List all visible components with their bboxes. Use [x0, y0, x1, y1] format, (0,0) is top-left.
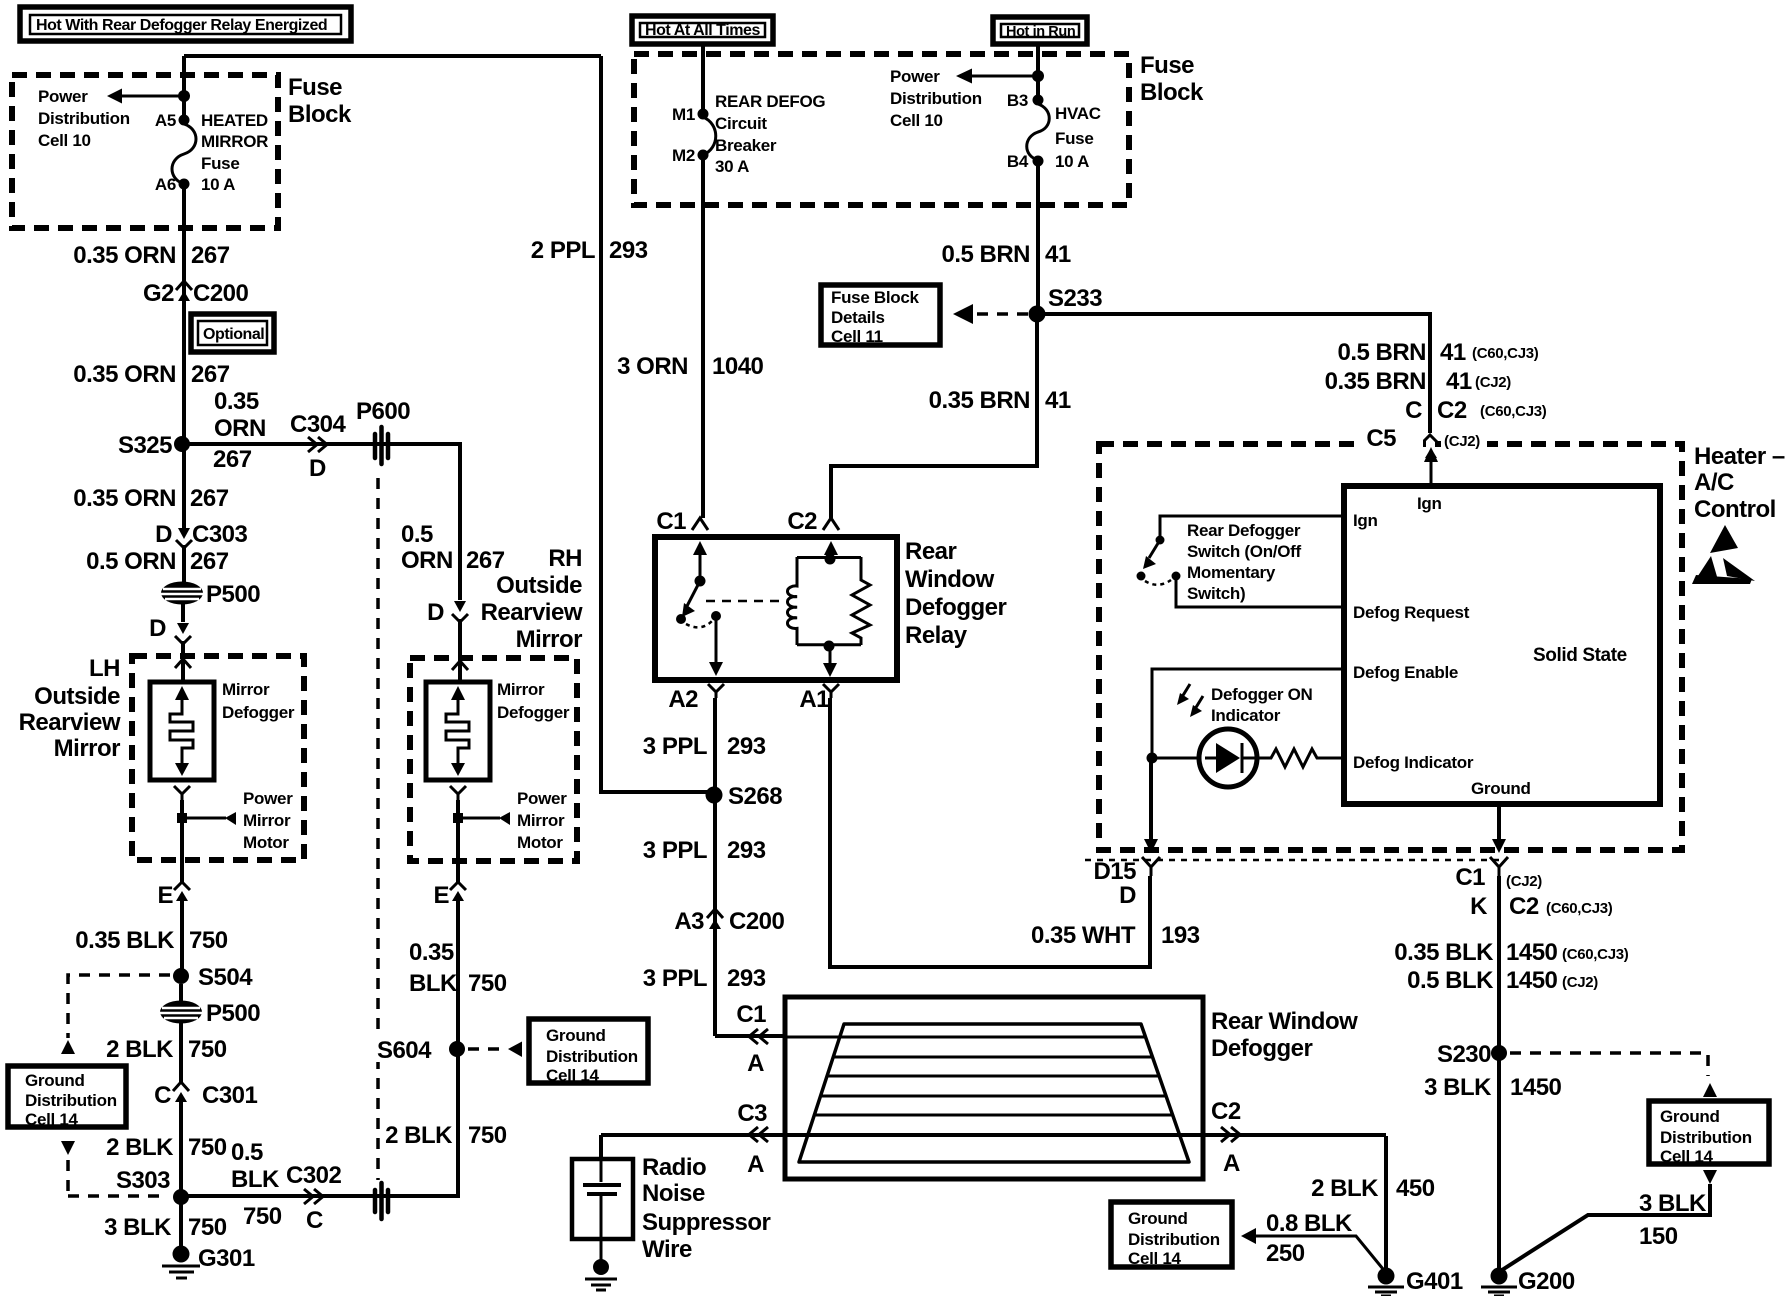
wire: arrow to Power Distribution Cell 10 (center) — [956, 69, 1044, 84]
svg-text:C303: C303 — [192, 521, 248, 548]
svg-text:0.35 BRN: 0.35 BRN — [1325, 368, 1426, 395]
svg-text:Power: Power — [517, 789, 567, 808]
svg-text:C301: C301 — [202, 1082, 258, 1109]
svg-text:RH: RH — [548, 545, 582, 572]
ground distribution cell 14 box (center bottom) — [1111, 1202, 1232, 1268]
wire: 0.35 ORN 267 from S325 to P600 and RH mirror — [182, 444, 460, 600]
ground G200 — [1481, 1268, 1575, 1296]
connector C200 pin A3 — [674, 908, 784, 935]
svg-text:10 A: 10 A — [1055, 152, 1089, 171]
connector C302 arrow pin C — [286, 1162, 342, 1234]
svg-text:A: A — [1223, 1150, 1240, 1177]
label 0.35 BLK 750 (RH stacked) — [409, 939, 507, 997]
svg-text:0.35 BRN: 0.35 BRN — [929, 387, 1030, 414]
svg-text:Rearview: Rearview — [19, 709, 121, 736]
svg-text:750: 750 — [189, 927, 228, 954]
svg-text:2 BLK: 2 BLK — [1311, 1175, 1379, 1202]
LED light rays — [1177, 684, 1203, 717]
relay switch contact to A2 — [711, 611, 721, 621]
svg-text:B3: B3 — [1007, 91, 1028, 110]
label Power Distribution Cell 10 (left) — [38, 87, 130, 150]
svg-text:E: E — [433, 882, 449, 909]
svg-text:0.35 ORN: 0.35 ORN — [73, 242, 176, 269]
svg-text:267: 267 — [190, 485, 229, 512]
svg-text:A/C: A/C — [1694, 469, 1734, 496]
svg-text:750: 750 — [188, 1036, 227, 1063]
connector A2 below relay — [668, 684, 724, 713]
svg-text:C: C — [154, 1082, 171, 1109]
svg-text:Distribution: Distribution — [890, 89, 982, 108]
svg-text:C2: C2 — [1437, 397, 1467, 424]
wire S504 to P500 — [179, 984, 183, 1002]
label 3 PPL 293 — [643, 965, 766, 992]
svg-text:Defog Enable: Defog Enable — [1353, 663, 1458, 682]
wire from C3 down to radio noise suppressor — [599, 1135, 603, 1160]
header box: Hot in Run — [993, 17, 1087, 44]
svg-text:B4: B4 — [1007, 152, 1029, 171]
defogger glass trapezoid — [799, 1024, 1189, 1162]
connector E (RH) — [433, 882, 466, 909]
wire 0.35 BLK 1450 from C1-K to S230 — [1497, 876, 1501, 1053]
wire 3 ORN 1040 from M2 to relay C1 — [701, 155, 705, 518]
fuse block (center) dashed box — [634, 54, 1129, 205]
wire 2 BLK 750 to C301 — [179, 1023, 183, 1083]
wire to defogger C1 — [715, 1034, 785, 1038]
svg-text:G301: G301 — [198, 1245, 255, 1272]
labels 0.35 ORN 267 (S325 branch) — [213, 388, 266, 473]
breaker element — [703, 117, 716, 155]
svg-text:750: 750 — [188, 1214, 227, 1241]
label Heater A/C Control — [1694, 443, 1785, 523]
wire 0.8 BLK 250 to G401 — [1241, 1228, 1383, 1269]
svg-text:450: 450 — [1396, 1175, 1435, 1202]
wire 0.35 BRN 41 from S233 to relay C2 — [831, 314, 1037, 518]
svg-text:HEATED: HEATED — [201, 111, 268, 130]
dotted throw arc — [686, 621, 712, 627]
svg-text:1450: 1450 — [1506, 967, 1558, 994]
svg-text:0.5 BLK: 0.5 BLK — [1407, 967, 1494, 994]
wire 0.35 BLK 750 to S604 — [456, 901, 460, 1049]
svg-text:267: 267 — [190, 548, 229, 575]
svg-text:Ign: Ign — [1417, 494, 1442, 513]
svg-text:BLK: BLK — [231, 1166, 280, 1193]
svg-text:(C60,CJ3): (C60,CJ3) — [1546, 900, 1613, 917]
suppressor capacitor — [583, 1159, 621, 1262]
connector C1 into relay — [656, 508, 708, 535]
connector C303 pin D — [176, 528, 192, 548]
wire 3 BLK 750 to G301 — [179, 1197, 183, 1248]
junction to power mirror motor — [177, 812, 236, 825]
label 0.5 BLK 750 — [231, 1139, 282, 1230]
svg-text:Block: Block — [1140, 79, 1204, 106]
svg-text:C200: C200 — [729, 908, 785, 935]
svg-text:3 BLK: 3 BLK — [1639, 1190, 1707, 1217]
svg-text:A1: A1 — [799, 686, 829, 713]
label HVAC Fuse 10 A — [1055, 104, 1101, 171]
fuse element A5-A6 — [172, 124, 196, 184]
label 3 BLK 1450 — [1424, 1074, 1561, 1101]
svg-text:Distribution: Distribution — [1660, 1128, 1752, 1147]
svg-text:Defogger: Defogger — [1211, 1035, 1313, 1062]
relay switch: arrow from C1 — [693, 541, 707, 581]
svg-text:(C60,CJ3): (C60,CJ3) — [1562, 946, 1629, 963]
svg-text:G2: G2 — [143, 280, 174, 307]
arrow down to A2 — [709, 616, 723, 676]
svg-text:(C60,CJ3): (C60,CJ3) — [1480, 403, 1547, 420]
LH outside rearview mirror dashed box — [132, 656, 304, 860]
label 0.5 BRN 41 — [941, 241, 1070, 268]
label 3 PPL 293 — [643, 837, 766, 864]
coil top rail — [797, 556, 861, 559]
connector C5 at heater box — [1422, 435, 1438, 487]
svg-text:750: 750 — [188, 1134, 227, 1161]
svg-text:G401: G401 — [1406, 1268, 1463, 1295]
svg-text:D: D — [1119, 882, 1136, 909]
svg-text:Breaker: Breaker — [715, 136, 777, 155]
svg-text:D: D — [309, 455, 326, 482]
svg-text:Ign: Ign — [1353, 511, 1378, 530]
svg-text:267: 267 — [466, 547, 505, 574]
coil bottom rail — [797, 643, 861, 646]
dashed wire S233 to fuse block details — [953, 304, 1028, 324]
svg-text:C1: C1 — [656, 508, 686, 535]
svg-text:Cell 14: Cell 14 — [1660, 1147, 1714, 1166]
LED junction — [1147, 753, 1158, 764]
svg-text:D: D — [149, 615, 166, 642]
wire: arrow to Power Distribution Cell 10 — [107, 89, 190, 104]
grommet at C302 boundary — [375, 1183, 388, 1219]
ground distribution cell 14 box (S604) — [529, 1019, 648, 1085]
svg-text:Distribution: Distribution — [546, 1047, 638, 1066]
svg-text:Mirror: Mirror — [497, 680, 545, 699]
header box: Hot At All Times — [632, 16, 773, 44]
wire from Hot At All Times into breaker — [701, 44, 705, 114]
wire 2 BLK 450 from defogger C2 to G401 — [1384, 1136, 1388, 1270]
svg-text:41: 41 — [1440, 339, 1466, 366]
label Mirror Defogger (LH) — [222, 680, 295, 722]
svg-text:Distribution: Distribution — [1128, 1230, 1220, 1249]
svg-text:0.35: 0.35 — [409, 939, 454, 966]
svg-text:S303: S303 — [116, 1167, 170, 1194]
wire 0.5 BRN 41 from B4 to S233 — [1036, 161, 1040, 314]
connector below RH element — [450, 786, 466, 800]
splice S504 — [173, 964, 253, 991]
label 0.5 ORN 267 (RH) — [401, 521, 505, 574]
labels D C303 — [155, 521, 247, 548]
svg-text:S504: S504 — [198, 964, 253, 991]
svg-text:K: K — [1470, 893, 1488, 920]
rear defogger switch pivot — [1156, 536, 1165, 545]
wire through power mirror motor junction — [180, 800, 184, 882]
wire: 0.35 ORN 267 S325 to C303 — [182, 444, 186, 528]
svg-text:MIRROR: MIRROR — [201, 132, 268, 151]
svg-text:3 ORN: 3 ORN — [617, 353, 688, 380]
wire into LH mirror — [181, 641, 185, 682]
svg-text:Window: Window — [905, 566, 995, 593]
fuse HVAC 10A terminal B3 — [1033, 95, 1044, 106]
svg-text:1450: 1450 — [1506, 939, 1558, 966]
svg-text:0.35 ORN: 0.35 ORN — [73, 361, 176, 388]
terminal M2 — [698, 150, 709, 161]
dashed boundary line below P600 — [376, 478, 380, 1180]
label 0.35 ORN 267 (below C200) — [73, 361, 229, 388]
svg-text:150: 150 — [1639, 1223, 1678, 1250]
connector C304 arrow pin D — [290, 411, 347, 482]
svg-text:Circuit: Circuit — [715, 114, 767, 133]
grommet P500 — [161, 581, 260, 608]
labels G2 C200 — [143, 280, 249, 307]
svg-text:A6: A6 — [155, 175, 176, 194]
svg-text:S268: S268 — [728, 783, 782, 810]
svg-text:C3: C3 — [737, 1100, 767, 1127]
label Power Mirror Motor (LH) — [243, 789, 293, 852]
svg-text:(CJ2): (CJ2) — [1506, 873, 1542, 890]
wire: 2 PPL 293 vertical to S268 — [601, 56, 714, 792]
wire: 0.35 ORN 267 from fuse A6 to C200 — [182, 184, 186, 444]
label 3 ORN 1040 — [617, 353, 763, 380]
svg-text:C2: C2 — [787, 508, 817, 535]
labels 0.5 BRN 41 / 0.35 BRN 41 / C C2 / C5 stack — [1325, 339, 1547, 424]
svg-text:293: 293 — [609, 237, 648, 264]
wire 0.35 BLK 750 to S504 — [180, 901, 184, 976]
relay coil node from C2 — [824, 541, 838, 565]
connector E (LH) — [157, 882, 190, 909]
svg-text:Ground: Ground — [25, 1071, 85, 1090]
connector at RH mirror case — [452, 661, 468, 670]
label 3 PPL 293 — [643, 733, 766, 760]
RH mirror defogger element box — [426, 682, 490, 780]
svg-text:0.35 BLK: 0.35 BLK — [1394, 939, 1494, 966]
svg-text:S604: S604 — [377, 1037, 432, 1064]
connector D (RH mirror) — [427, 599, 468, 626]
svg-text:0.5 BRN: 0.5 BRN — [941, 241, 1030, 268]
svg-text:Mirror: Mirror — [517, 811, 565, 830]
RH outside rearview mirror dashed box — [410, 658, 577, 861]
svg-text:ORN: ORN — [401, 547, 453, 574]
switch contact right to Defog Request — [1172, 572, 1181, 581]
ground distribution cell 14 box (left) — [8, 1066, 126, 1129]
label Fuse Block (center right) — [1140, 52, 1204, 106]
svg-text:293: 293 — [727, 733, 766, 760]
svg-text:Defogger: Defogger — [905, 594, 1007, 621]
svg-text:Switch): Switch) — [1187, 584, 1245, 603]
connector C2 pin A arrows — [1211, 1098, 1241, 1177]
svg-text:2 BLK: 2 BLK — [385, 1122, 453, 1149]
svg-text:S325: S325 — [118, 432, 172, 459]
defogger ON indicator LED — [1199, 729, 1257, 787]
svg-text:Fuse: Fuse — [1140, 52, 1194, 79]
connector A1 below relay — [799, 684, 839, 713]
connector at LH mirror case — [175, 659, 191, 668]
svg-text:Switch (On/Off: Switch (On/Off — [1187, 542, 1301, 561]
svg-text:A2: A2 — [668, 686, 698, 713]
svg-text:Rear Defogger: Rear Defogger — [1187, 521, 1301, 540]
wire: P500 to connector D — [181, 604, 185, 622]
label 3 BLK 750 — [104, 1214, 227, 1241]
svg-text:Radio: Radio — [642, 1154, 706, 1181]
svg-text:Mirror: Mirror — [243, 811, 291, 830]
svg-text:3 BLK: 3 BLK — [104, 1214, 172, 1241]
label LH Outside Rearview Mirror — [19, 655, 121, 762]
connector C200 pin G2 — [176, 281, 192, 301]
label Fuse Block (left) — [288, 74, 352, 128]
wire 0.5 BRN 41 from S233 to heater A/C C5 — [1037, 314, 1430, 433]
svg-text:750: 750 — [468, 970, 507, 997]
dashed actuation link — [706, 600, 784, 603]
svg-text:3 BLK: 3 BLK — [1424, 1074, 1492, 1101]
svg-text:750: 750 — [468, 1122, 507, 1149]
relay switch pivot — [695, 576, 706, 587]
label 0.35 BRN 41 — [929, 387, 1071, 414]
svg-text:Wire: Wire — [642, 1236, 692, 1263]
svg-text:C1: C1 — [1455, 864, 1485, 891]
dotted throw arc — [1145, 580, 1171, 585]
wire 2 BLK 750 to S303 — [179, 1102, 183, 1197]
defogger C1 feed line inside glass — [785, 1036, 1146, 1039]
LH mirror defogger element box — [150, 682, 214, 780]
ground distribution cell 14 box (right) — [1649, 1101, 1769, 1166]
svg-text:Power: Power — [38, 87, 88, 106]
svg-text:Fuse Block: Fuse Block — [831, 288, 920, 307]
ground G401 — [1368, 1268, 1463, 1296]
relay resistor branch — [852, 557, 870, 645]
resistor to Defog Indicator — [1257, 749, 1344, 767]
svg-text:S230: S230 — [1437, 1041, 1491, 1068]
svg-text:2 BLK: 2 BLK — [106, 1134, 174, 1161]
wire from Hot in Run into HVAC fuse — [1036, 44, 1040, 100]
splice S268 — [706, 783, 783, 810]
svg-text:Power: Power — [243, 789, 293, 808]
label 0.35 ORN 267 — [73, 242, 229, 269]
wire 2 BLK 750 from S604 down to C302 run — [181, 1049, 458, 1196]
svg-text:Details: Details — [831, 308, 885, 327]
grommet P500 (lower) — [160, 1000, 260, 1027]
terminal B4 — [1033, 156, 1044, 167]
junction to RH power mirror motor — [453, 812, 510, 825]
svg-text:Defogger: Defogger — [497, 703, 570, 722]
svg-text:C: C — [306, 1207, 323, 1234]
svg-text:0.35 BLK: 0.35 BLK — [75, 927, 175, 954]
label Rear Window Defogger — [1211, 1008, 1358, 1062]
svg-text:30 A: 30 A — [715, 157, 749, 176]
connector C3 pin A arrows — [737, 1100, 768, 1178]
svg-text:Cell 14: Cell 14 — [25, 1110, 79, 1129]
svg-text:250: 250 — [1266, 1240, 1305, 1267]
svg-text:C304: C304 — [290, 411, 347, 438]
svg-text:Defog Request: Defog Request — [1353, 603, 1470, 622]
svg-text:Defogger ON: Defogger ON — [1211, 685, 1313, 704]
Ign pin at top — [1417, 447, 1442, 513]
svg-text:Mirror: Mirror — [222, 680, 270, 699]
label Defogger ON Indicator — [1211, 685, 1313, 725]
svg-text:G200: G200 — [1518, 1268, 1575, 1295]
svg-text:Rear: Rear — [905, 538, 957, 565]
wire 3 BLK 1450 from S230 to G200 — [1497, 1053, 1501, 1270]
svg-text:Fuse: Fuse — [201, 154, 239, 173]
svg-text:Cell 10: Cell 10 — [890, 111, 943, 130]
svg-text:3 PPL: 3 PPL — [643, 837, 707, 864]
connector D (LH mirror) — [149, 615, 191, 644]
terminal A6 — [179, 179, 190, 190]
connector C2 into relay — [787, 508, 839, 535]
svg-text:Ground: Ground — [1128, 1209, 1188, 1228]
splice S604 — [340, 1036, 465, 1064]
svg-text:0.35 ORN: 0.35 ORN — [73, 485, 176, 512]
solid state control box — [1344, 486, 1660, 804]
label 2 BLK 750 — [106, 1134, 227, 1161]
svg-text:ORN: ORN — [214, 415, 266, 442]
svg-text:1450: 1450 — [1510, 1074, 1562, 1101]
label Mirror Defogger (RH) — [497, 680, 570, 722]
svg-text:750: 750 — [243, 1203, 282, 1230]
header box: Hot With Rear Defogger Relay Energized — [20, 7, 351, 41]
radio noise suppressor box — [572, 1159, 633, 1239]
label HEATED MIRROR Fuse 10 A — [201, 111, 268, 194]
svg-text:Hot in Run: Hot in Run — [1006, 24, 1075, 40]
fuse block details cell 11 box — [821, 285, 940, 346]
connector C1 pin K — [1455, 857, 1612, 920]
svg-text:0.5 BRN: 0.5 BRN — [1337, 339, 1426, 366]
svg-text:C302: C302 — [286, 1162, 342, 1189]
svg-text:10 A: 10 A — [201, 175, 235, 194]
svg-text:LH: LH — [89, 655, 120, 682]
label 2 BLK 450 — [1311, 1175, 1435, 1202]
label Radio Noise Suppressor Wire — [642, 1154, 771, 1263]
svg-text:A5: A5 — [155, 111, 176, 130]
label 2 PPL 293 — [531, 237, 648, 264]
switch contact left — [1137, 572, 1146, 581]
svg-text:Cell 10: Cell 10 — [38, 131, 91, 150]
svg-text:Indicator: Indicator — [1211, 706, 1281, 725]
svg-text:Solid State: Solid State — [1533, 645, 1627, 666]
svg-text:D: D — [427, 599, 444, 626]
svg-text:Heater –: Heater – — [1694, 443, 1785, 470]
svg-text:Motor: Motor — [517, 833, 563, 852]
svg-text:(CJ2): (CJ2) — [1444, 433, 1480, 450]
inner dashed boundary line — [1085, 859, 1500, 862]
svg-text:Relay: Relay — [905, 622, 968, 649]
dashed wire S230 to ground distribution (right) — [1510, 1053, 1717, 1097]
svg-text:(CJ2): (CJ2) — [1562, 974, 1598, 991]
label Rear Window Defogger Relay — [905, 538, 1007, 649]
wire: battery feed into HEATED MIRROR fuse — [182, 56, 186, 120]
svg-text:Suppressor: Suppressor — [642, 1209, 771, 1236]
wire into RH mirror — [458, 619, 462, 682]
svg-text:D: D — [155, 521, 172, 548]
svg-text:Hot With Rear Defogger Relay E: Hot With Rear Defogger Relay Energized — [36, 17, 327, 34]
fuse block (left) dashed box — [12, 75, 278, 228]
splice S233 — [1029, 285, 1103, 323]
Ign pin left — [1160, 511, 1378, 540]
wire 3 BLK 150 from box to G200 — [1502, 1170, 1717, 1270]
connector below LH element — [174, 786, 190, 800]
svg-text:267: 267 — [191, 361, 230, 388]
svg-text:BLK: BLK — [409, 970, 458, 997]
labels C C301 — [154, 1082, 257, 1109]
svg-text:HVAC: HVAC — [1055, 104, 1101, 123]
svg-text:Ground: Ground — [546, 1026, 606, 1045]
wire junction to LED — [1152, 757, 1199, 760]
svg-text:Control: Control — [1694, 496, 1776, 523]
svg-text:Cell 14: Cell 14 — [1128, 1249, 1182, 1268]
svg-text:P600: P600 — [356, 398, 410, 425]
svg-text:193: 193 — [1161, 922, 1200, 949]
label RH Outside Rearview Mirror — [481, 545, 583, 653]
heater A/C control dashed box — [1099, 444, 1682, 850]
ground below suppressor — [585, 1259, 617, 1290]
circuit breaker REAR DEFOG 30A terminal M1 — [698, 109, 709, 120]
dashed wire S604 to ground distribution — [468, 1042, 522, 1058]
